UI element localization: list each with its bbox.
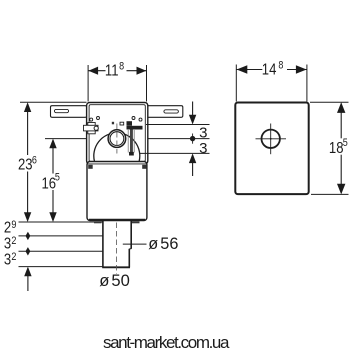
screw circle top-left a bbox=[90, 118, 93, 121]
label d56 bbox=[148, 235, 178, 253]
front view circle bbox=[262, 130, 280, 148]
label 23^6 bbox=[17, 155, 41, 174]
dome arc (flush bend) bbox=[94, 133, 140, 162]
inlet circle inner bbox=[110, 132, 124, 146]
svg-text:56: 56 bbox=[160, 235, 178, 253]
svg-text:50: 50 bbox=[111, 271, 129, 290]
dimension 165 vertical line bbox=[49, 139, 56, 222]
svg-text:2: 2 bbox=[4, 219, 11, 236]
svg-text:8: 8 bbox=[119, 61, 124, 73]
svg-text:5: 5 bbox=[343, 137, 348, 149]
flush valve rod tip bbox=[129, 152, 134, 156]
front view center dot bbox=[270, 138, 272, 140]
arrow up to line D bbox=[24, 267, 31, 291]
svg-text:5: 5 bbox=[55, 172, 60, 184]
label 16^5 bbox=[42, 172, 63, 193]
front view crosshair horizontal bbox=[256, 138, 287, 140]
leader line d56 bbox=[123, 243, 147, 245]
screw circle top-right b bbox=[139, 118, 142, 121]
foot right bbox=[132, 221, 140, 223]
label d50 bbox=[99, 271, 130, 290]
small fitting right of center bbox=[120, 122, 124, 125]
svg-text:23: 23 bbox=[18, 156, 33, 173]
label 18^5 bbox=[329, 137, 350, 157]
svg-text:9: 9 bbox=[11, 219, 16, 231]
flush valve dark bar (horizontal) bbox=[127, 126, 143, 130]
chain dimension line B bbox=[19, 235, 103, 237]
pipe center dashed line bbox=[116, 223, 118, 275]
right bracket wing bbox=[147, 106, 183, 118]
svg-text:sant-market.com.ua: sant-market.com.ua bbox=[103, 333, 230, 352]
extension line top datum (housing top, left side) bbox=[20, 101, 87, 103]
svg-text:ø: ø bbox=[148, 235, 158, 253]
svg-text:14: 14 bbox=[262, 61, 277, 78]
corner clip left bbox=[88, 165, 93, 169]
inlet circle outer bbox=[108, 130, 126, 148]
svg-text:8: 8 bbox=[278, 60, 283, 72]
diamond marker 32 bbox=[26, 247, 31, 255]
label 14^8 bbox=[262, 60, 287, 79]
screw circle top-right a bbox=[132, 117, 135, 120]
dot marker middle dim-3 bbox=[190, 134, 195, 144]
flush valve block above bar bbox=[127, 121, 133, 126]
dimension 148 top of front view bbox=[236, 65, 307, 102]
dim-3 top line bbox=[146, 124, 210, 126]
svg-text:6: 6 bbox=[32, 155, 37, 167]
arrow down to dim-3 top line bbox=[189, 102, 196, 125]
svg-text:2: 2 bbox=[11, 251, 16, 263]
diamond marker 29 bbox=[26, 232, 31, 240]
dimension 118 top bbox=[88, 65, 146, 102]
label 2^9 bbox=[4, 219, 17, 237]
svg-text:2: 2 bbox=[11, 235, 16, 247]
svg-text:3: 3 bbox=[4, 236, 11, 253]
water inlet fitting left bbox=[84, 123, 99, 134]
screw circle top-left b bbox=[97, 117, 100, 120]
label 3^2 (first) bbox=[4, 235, 17, 253]
front view crosshair vertical bbox=[270, 124, 272, 155]
center dashed vertical line bbox=[116, 124, 118, 154]
foot left bbox=[94, 221, 102, 223]
svg-text:3: 3 bbox=[4, 252, 11, 269]
small fastener near top center bbox=[112, 122, 114, 125]
extension line 165 / circle centerline / dim-3 middle line bbox=[45, 138, 210, 140]
upper housing outer box bbox=[87, 103, 148, 164]
extension line 185 top bbox=[310, 101, 349, 103]
svg-text:3: 3 bbox=[199, 140, 207, 157]
dim-3 bottom line bbox=[140, 152, 210, 154]
svg-text:16: 16 bbox=[42, 175, 57, 192]
chain dimension line C bbox=[19, 250, 103, 252]
arrow up to dim-3 bottom line bbox=[189, 153, 196, 176]
extension line 185 bottom bbox=[311, 193, 349, 195]
chain dimension line A (bottom of box) bbox=[19, 221, 103, 223]
svg-text:18: 18 bbox=[329, 140, 344, 157]
dimension 185 vertical bbox=[337, 102, 345, 194]
lower box thick bottom edge bbox=[89, 219, 145, 221]
svg-text:11: 11 bbox=[105, 62, 119, 79]
flush valve rod bbox=[127, 130, 129, 153]
corner clip right bbox=[142, 165, 147, 169]
dimension 236 vertical line bbox=[24, 102, 31, 222]
svg-text:ø: ø bbox=[99, 271, 109, 290]
left bracket wing bbox=[51, 106, 87, 118]
outlet pipe bbox=[102, 221, 131, 267]
label 3^2 (second) bbox=[4, 251, 17, 269]
upper housing inner wall bbox=[89, 105, 145, 162]
lower box top inner line bbox=[87, 163, 147, 165]
chain dimension line D (pipe bottom) bbox=[19, 266, 103, 268]
front view plate bbox=[235, 103, 308, 195]
lower box bbox=[87, 162, 147, 221]
label 11^8 bbox=[105, 61, 127, 80]
